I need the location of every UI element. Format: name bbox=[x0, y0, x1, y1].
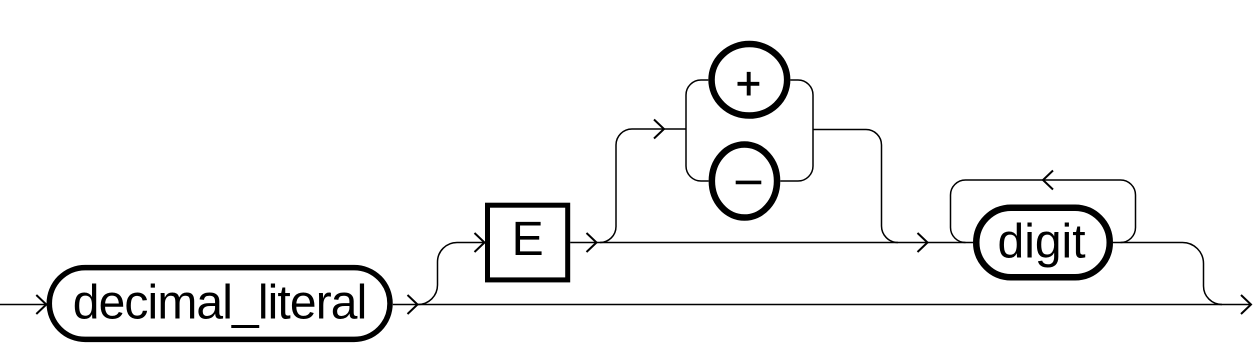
wire: digit exit line bbox=[1113, 242, 1183, 244]
terminal E box bbox=[488, 205, 568, 280]
wire: main entry line bbox=[0, 304, 46, 306]
arrowhead into sign choice bbox=[654, 120, 664, 139]
arrowhead on loop pointing left bbox=[1043, 171, 1053, 190]
wire: branch up to sign choice bbox=[600, 129, 686, 243]
wire: choice exit line bbox=[813, 130, 898, 243]
terminal digit bbox=[976, 208, 1110, 278]
wire: merge down to main line bbox=[1183, 243, 1223, 305]
arrowhead after E box bbox=[587, 233, 597, 252]
terminal decimal_literal bbox=[49, 268, 390, 340]
svg-text:decimal_literal: decimal_literal bbox=[73, 277, 367, 330]
terminal minus bubble bbox=[712, 144, 777, 217]
wire: digit repeat loop bbox=[951, 180, 1136, 243]
wire: choice right rail bbox=[780, 80, 813, 181]
terminal plus bubble bbox=[712, 44, 788, 116]
arrowhead into E box bbox=[475, 233, 485, 252]
arrowhead into digit bbox=[918, 233, 928, 252]
arrowhead after decimal_literal bbox=[408, 295, 418, 314]
svg-text:digit: digit bbox=[998, 216, 1086, 269]
wire: branch up to E box bbox=[418, 243, 484, 305]
arrowhead into decimal_literal bbox=[36, 295, 46, 314]
arrowhead at diagram exit bbox=[1241, 295, 1251, 314]
svg-text:E: E bbox=[512, 213, 544, 266]
wire: E exit line / sign bypass line bbox=[570, 242, 973, 244]
wire: choice left rail bbox=[686, 80, 709, 181]
wire: main bypass line after decimal_literal bbox=[393, 304, 1251, 306]
